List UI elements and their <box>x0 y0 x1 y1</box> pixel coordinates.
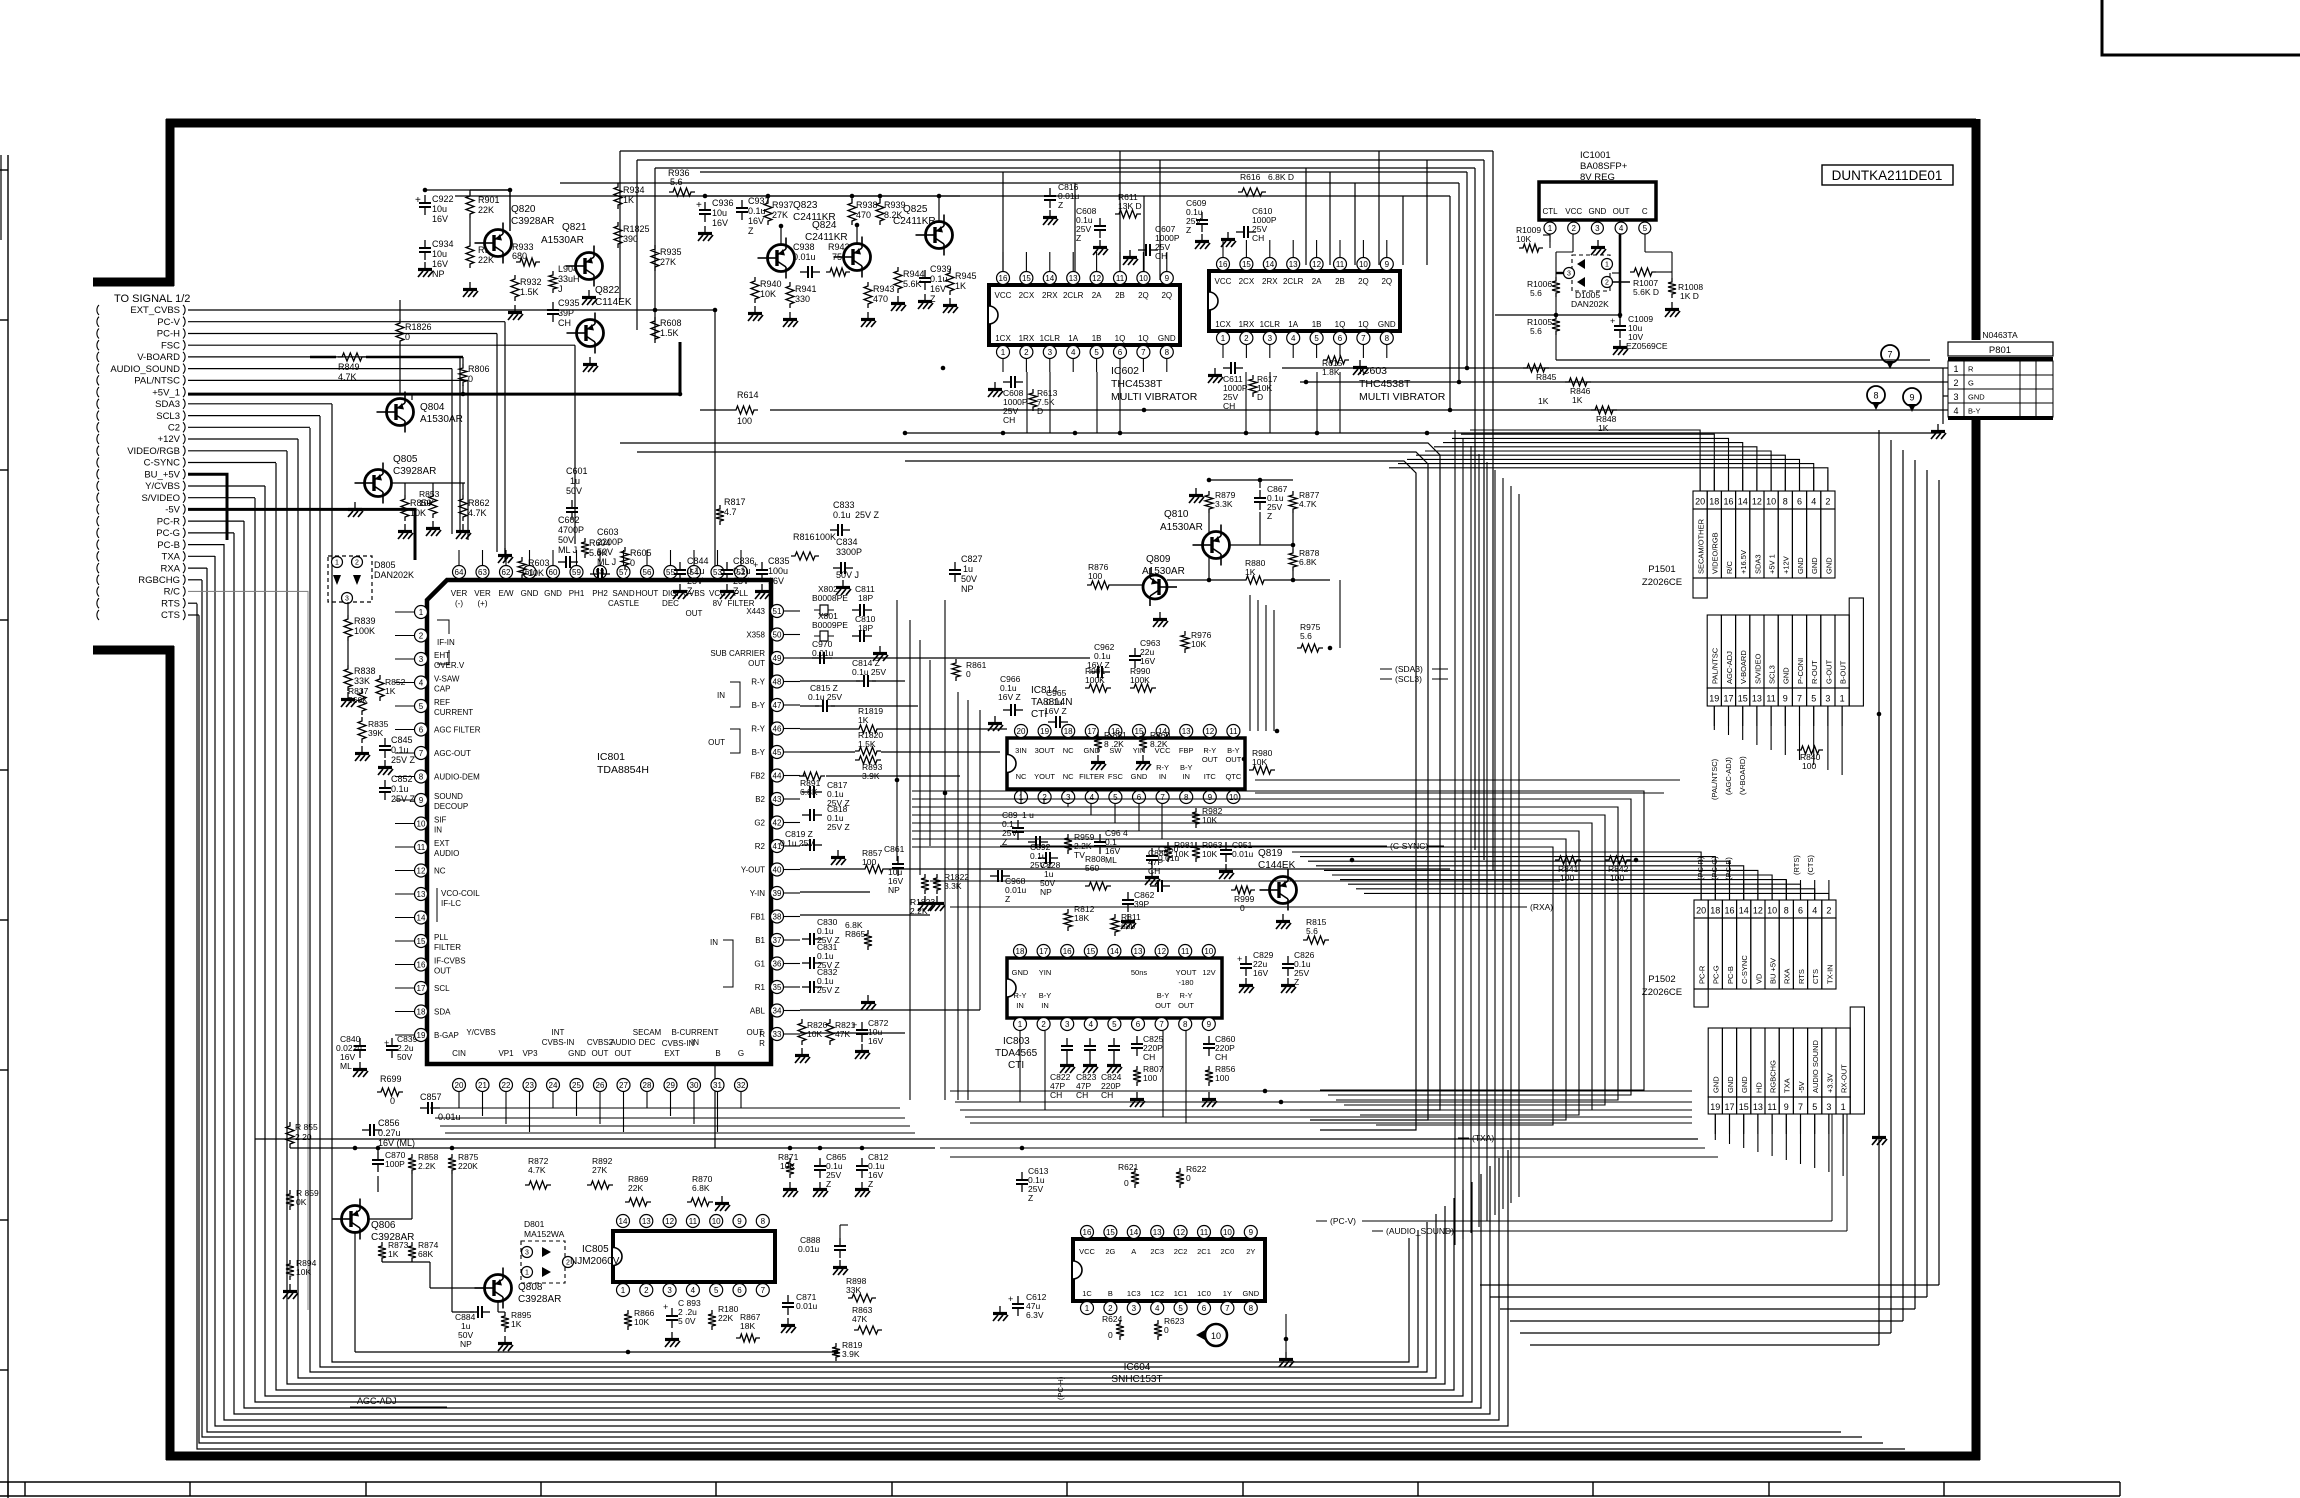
svg-text:GND: GND <box>1158 334 1176 343</box>
transistor Q825 <box>926 222 953 249</box>
svg-text:+12V: +12V <box>158 434 181 445</box>
resistor R938 <box>848 199 856 225</box>
svg-text:SECAM: SECAM <box>633 1028 662 1037</box>
svg-text:CH: CH <box>1155 251 1167 261</box>
svg-text:0.1u 25V: 0.1u 25V <box>852 667 886 677</box>
svg-text:3: 3 <box>525 1250 529 1257</box>
svg-text:19: 19 <box>1710 1102 1720 1112</box>
svg-text:CAP: CAP <box>434 685 450 694</box>
svg-text:GND: GND <box>544 589 562 598</box>
svg-text:2: 2 <box>1244 334 1249 343</box>
IC IC805 NJM2060V body <box>613 1231 775 1282</box>
svg-text:VD: VD <box>1754 973 1763 984</box>
capacitor C950 <box>1151 848 1153 856</box>
resistor R819 <box>832 1343 840 1361</box>
svg-text:TO SIGNAL 1/2: TO SIGNAL 1/2 <box>114 293 190 305</box>
resistor R901 <box>466 192 474 218</box>
svg-text:9: 9 <box>1783 694 1788 704</box>
svg-text:THC4538T: THC4538T <box>1111 378 1163 390</box>
svg-text:C857: C857 <box>420 1092 442 1102</box>
svg-text:(AUDIO_SOUND): (AUDIO_SOUND) <box>1386 1226 1454 1236</box>
capacitor C826 <box>1287 956 1289 964</box>
svg-text:R616: R616 <box>1240 172 1261 182</box>
nested verticals left of IC1001 <box>1450 151 1493 870</box>
resistor R870 <box>687 1198 713 1206</box>
svg-text:G-OUT: G-OUT <box>1824 659 1833 684</box>
resistor R879 <box>1205 491 1213 513</box>
svg-text:NC: NC <box>1063 772 1074 781</box>
resistor R623 <box>1154 1320 1162 1340</box>
svg-text:GND: GND <box>1012 968 1029 977</box>
ground below IC604 <box>1285 1352 1287 1358</box>
capacitor C935 <box>552 302 554 310</box>
svg-text:15: 15 <box>1242 260 1251 269</box>
svg-text:B-Y: B-Y <box>1968 407 1981 416</box>
svg-text:1C0: 1C0 <box>1197 1289 1211 1298</box>
svg-text:VCC: VCC <box>1079 1247 1095 1256</box>
resistor R811 <box>1111 914 1119 936</box>
svg-text:6.8K D: 6.8K D <box>1268 172 1294 182</box>
transistor Q820 <box>485 230 512 257</box>
svg-text:0: 0 <box>390 1096 395 1106</box>
svg-text:1: 1 <box>1605 262 1609 269</box>
svg-text:10: 10 <box>417 819 426 828</box>
svg-text:OUT: OUT <box>747 1028 764 1037</box>
svg-text:33K: 33K <box>846 1285 861 1295</box>
capacitor C611 cluster at IC603 <box>1223 367 1231 369</box>
svg-text:0.27u: 0.27u <box>378 1128 401 1138</box>
svg-text:RTS: RTS <box>161 598 180 609</box>
IC801 bottom pins <box>453 1079 748 1106</box>
svg-text:16: 16 <box>1063 947 1072 956</box>
svg-text:10K: 10K <box>1191 639 1206 649</box>
svg-text:C834: C834 <box>836 537 858 547</box>
svg-text:Z: Z <box>748 226 754 236</box>
svg-text:SECAM/OTHER: SECAM/OTHER <box>1697 518 1706 574</box>
svg-text:6: 6 <box>1118 348 1123 357</box>
svg-text:AGC-ADJ: AGC-ADJ <box>357 1396 397 1406</box>
svg-text:3.9K: 3.9K <box>842 1349 860 1359</box>
resistor R852 <box>376 675 384 701</box>
svg-text:CTL: CTL <box>1542 207 1558 216</box>
svg-text:IN: IN <box>1182 772 1190 781</box>
horizontal mesh wires center <box>930 780 1718 1157</box>
resistor R848 <box>1591 406 1617 414</box>
svg-text:9: 9 <box>1165 274 1170 283</box>
svg-text:3IN: 3IN <box>1015 746 1027 755</box>
svg-text:Q810: Q810 <box>1164 509 1189 520</box>
resistor R898 <box>848 1294 876 1302</box>
capacitor C825 <box>1136 1036 1138 1044</box>
svg-text:Q808: Q808 <box>518 1282 543 1293</box>
svg-text:17: 17 <box>417 984 426 993</box>
svg-text:50ns: 50ns <box>1131 968 1148 977</box>
svg-text:330: 330 <box>795 294 810 304</box>
svg-text:5.6: 5.6 <box>1530 288 1542 298</box>
svg-text:36: 36 <box>773 959 782 968</box>
svg-text:2: 2 <box>1108 1304 1113 1313</box>
svg-text:NC: NC <box>1063 746 1074 755</box>
svg-text:4: 4 <box>1071 348 1076 357</box>
svg-text:16V: 16V <box>1253 968 1268 978</box>
svg-text:1: 1 <box>1953 364 1958 374</box>
svg-text:AUDIO_SOUND: AUDIO_SOUND <box>110 364 180 375</box>
svg-text:10: 10 <box>1211 1331 1221 1341</box>
resistor R877 <box>1289 491 1297 513</box>
svg-text:4: 4 <box>1090 793 1095 802</box>
svg-text:6: 6 <box>1798 906 1803 916</box>
resistor R944 <box>894 267 902 293</box>
svg-text:S/VIDEO: S/VIDEO <box>141 493 180 504</box>
svg-text:12: 12 <box>1752 497 1762 507</box>
svg-text:GND: GND <box>521 589 539 598</box>
resistor R991 <box>1085 684 1111 692</box>
svg-text:V-BOARD: V-BOARD <box>1739 650 1748 684</box>
wire junction dots <box>353 188 1882 1355</box>
svg-text:5.6: 5.6 <box>670 177 683 187</box>
svg-text:C836: C836 <box>733 556 755 566</box>
svg-text:0.1u: 0.1u <box>748 206 766 216</box>
svg-text:16V Z: 16V Z <box>1044 706 1067 716</box>
svg-text:4700P: 4700P <box>558 525 584 535</box>
svg-text:1Q: 1Q <box>1115 334 1126 343</box>
svg-text:11: 11 <box>1229 727 1238 736</box>
svg-text:5.6: 5.6 <box>1530 326 1542 336</box>
svg-text:Q805: Q805 <box>393 454 418 465</box>
svg-text:BU_+5V: BU_+5V <box>144 469 180 480</box>
IC814 pins <box>1015 725 1242 804</box>
svg-text:NP: NP <box>961 584 974 594</box>
svg-text:1: 1 <box>1840 694 1845 704</box>
svg-text:R1825: R1825 <box>623 224 650 234</box>
capacitor C823 <box>1089 1038 1091 1046</box>
svg-text:100u: 100u <box>768 566 788 576</box>
svg-text:VP1: VP1 <box>498 1049 514 1058</box>
svg-text:Z: Z <box>1058 200 1063 210</box>
svg-text:B0008PE: B0008PE <box>812 593 848 603</box>
left margin ticks <box>0 170 8 1370</box>
svg-text:14: 14 <box>417 913 426 922</box>
svg-text:A1530AR: A1530AR <box>420 414 463 425</box>
resistor R849 with thick wire <box>310 356 336 359</box>
svg-text:39: 39 <box>773 889 782 898</box>
svg-text:10: 10 <box>712 1217 721 1226</box>
resistor R850 <box>401 495 409 521</box>
svg-text:10u: 10u <box>712 208 727 218</box>
svg-text:13: 13 <box>1753 1102 1763 1112</box>
capacitor C811 <box>852 609 860 611</box>
svg-text:18: 18 <box>1064 727 1073 736</box>
svg-text:12V: 12V <box>1202 968 1215 977</box>
svg-text:7: 7 <box>1160 793 1165 802</box>
resistor R871 <box>786 1158 794 1178</box>
svg-text:8 .2K: 8 .2K <box>1104 739 1124 749</box>
capacitor C852 <box>384 780 386 788</box>
capacitor C816 <box>1049 188 1051 196</box>
resistor R838 <box>344 665 352 691</box>
IC IC603 THC4538T <box>1209 271 1400 331</box>
svg-text:IF-IN: IF-IN <box>437 638 455 647</box>
svg-text:6: 6 <box>1797 497 1802 507</box>
wires IC801 right pins to CTI stages <box>800 658 1450 1033</box>
IC805 cluster wires <box>377 1148 379 1152</box>
svg-text:4.7: 4.7 <box>724 507 737 517</box>
svg-text:1: 1 <box>419 608 424 617</box>
svg-text:20: 20 <box>1017 727 1026 736</box>
resistor R876 <box>1087 581 1113 589</box>
svg-text:56: 56 <box>643 568 652 577</box>
svg-text:14: 14 <box>1265 260 1274 269</box>
svg-text:(AGC-ADJ): (AGC-ADJ) <box>1724 757 1733 795</box>
svg-text:C2411KR: C2411KR <box>805 232 848 243</box>
svg-text:R862: R862 <box>468 498 490 508</box>
svg-text:4: 4 <box>691 1286 696 1295</box>
svg-text:DEC: DEC <box>639 1038 656 1047</box>
svg-text:PC-R: PC-R <box>157 516 180 527</box>
svg-text:26: 26 <box>596 1081 605 1090</box>
wires from P1501 top going up <box>1389 430 1828 491</box>
reference bubble 9 <box>1903 388 1921 406</box>
svg-text:13: 13 <box>642 1217 651 1226</box>
svg-text:16V: 16V <box>1140 656 1155 666</box>
svg-text:GND: GND <box>1589 207 1607 216</box>
svg-text:7: 7 <box>1798 1102 1803 1112</box>
svg-text:18P: 18P <box>858 593 873 603</box>
svg-text:1K: 1K <box>511 1319 522 1329</box>
svg-text:VP3: VP3 <box>522 1049 538 1058</box>
svg-text:B-OUT: B-OUT <box>1839 660 1848 684</box>
svg-text:50V: 50V <box>397 1052 412 1062</box>
svg-text:+: + <box>384 1038 389 1048</box>
svg-text:42: 42 <box>773 818 782 827</box>
svg-text:5.6K D: 5.6K D <box>1633 287 1659 297</box>
wires from upper connector rows descending <box>452 310 715 1148</box>
svg-text:2: 2 <box>1042 793 1047 802</box>
resistor R1826 <box>396 319 404 345</box>
svg-text:BU +5V: BU +5V <box>1769 958 1778 984</box>
svg-text:4: 4 <box>419 678 424 687</box>
connector P1501 upper row <box>1693 470 1835 598</box>
capacitor C1009 <box>1619 318 1621 326</box>
svg-text:50V: 50V <box>961 574 977 584</box>
svg-text:5.6: 5.6 <box>1306 926 1318 936</box>
svg-text:Z2026CE: Z2026CE <box>1642 577 1682 588</box>
capacitor C608b <box>1099 218 1101 226</box>
svg-text:5.6: 5.6 <box>1300 631 1312 641</box>
svg-text:100: 100 <box>1802 761 1816 771</box>
svg-text:1C: 1C <box>1082 1289 1092 1298</box>
svg-text:5: 5 <box>1178 1304 1183 1313</box>
svg-text:2: 2 <box>419 631 424 640</box>
svg-text:33K: 33K <box>354 676 370 686</box>
svg-text:Q824: Q824 <box>812 220 837 231</box>
svg-text:EXT_CVBS: EXT_CVBS <box>130 305 180 316</box>
svg-text:R943: R943 <box>873 284 895 294</box>
svg-text:G2: G2 <box>754 819 765 828</box>
capacitor C862 <box>1127 892 1129 900</box>
svg-text:6: 6 <box>1137 793 1142 802</box>
svg-text:B-GAP: B-GAP <box>434 1031 459 1040</box>
svg-text:GND: GND <box>568 1049 586 1058</box>
IC IC602 THC4538T <box>989 285 1180 345</box>
svg-text:EZ0569CE: EZ0569CE <box>1626 341 1668 351</box>
svg-text:NJM2060V: NJM2060V <box>570 1256 620 1267</box>
svg-text:6: 6 <box>1338 334 1343 343</box>
svg-text:3: 3 <box>667 1286 672 1295</box>
svg-text:C935: C935 <box>558 298 580 308</box>
svg-text:R901: R901 <box>478 195 500 205</box>
svg-text:8: 8 <box>419 772 424 781</box>
svg-text:1K: 1K <box>1572 395 1583 405</box>
resistor R932 <box>511 275 519 301</box>
wires below P1502 <box>1715 1114 1843 1176</box>
signal wires from connector turning down into left bus <box>188 310 715 615</box>
svg-text:B-Y: B-Y <box>1180 763 1193 772</box>
svg-text:R: R <box>1968 365 1974 374</box>
IC801 bottom pin drops <box>459 1105 741 1132</box>
resistor R621 <box>1131 1168 1139 1188</box>
svg-text:2CLR: 2CLR <box>1063 291 1084 300</box>
resistor R895 <box>501 1312 509 1332</box>
resistor R1007 <box>1630 268 1656 276</box>
svg-text:100: 100 <box>737 416 752 426</box>
svg-text:2A: 2A <box>1092 291 1102 300</box>
svg-text:+16.5V: +16.5V <box>1739 550 1748 574</box>
svg-text:16: 16 <box>1724 906 1734 916</box>
svg-text:PH1: PH1 <box>569 589 585 598</box>
svg-text:2C1: 2C1 <box>1197 1247 1211 1256</box>
svg-text:58: 58 <box>596 568 605 577</box>
svg-text:CURRENT: CURRENT <box>434 708 473 717</box>
svg-text:R845: R845 <box>1536 372 1557 382</box>
svg-text:25V: 25V <box>687 576 703 586</box>
svg-text:2C0: 2C0 <box>1221 1247 1235 1256</box>
svg-text:18: 18 <box>1709 497 1719 507</box>
svg-text:0: 0 <box>1108 1330 1113 1340</box>
svg-text:29: 29 <box>666 1081 675 1090</box>
diode pack D801 <box>521 1241 565 1283</box>
svg-text:13: 13 <box>1153 1228 1162 1237</box>
IC814 bottom pin drops <box>1021 791 1162 839</box>
resistor R891 <box>799 772 825 780</box>
svg-text:C861: C861 <box>884 844 905 854</box>
capacitor C938 <box>800 271 808 273</box>
capacitor C812 <box>861 1158 863 1166</box>
svg-text:PC-R: PC-R <box>1698 965 1707 984</box>
svg-text:13K D: 13K D <box>1118 201 1142 211</box>
svg-text:PAL/NTSC: PAL/NTSC <box>134 376 180 387</box>
svg-text:A1530AR: A1530AR <box>1142 566 1185 577</box>
resistor R873 <box>378 1242 386 1262</box>
svg-text:TXA: TXA <box>162 552 181 563</box>
vertical wires right of IC801 <box>897 600 980 1100</box>
svg-text:6.8K: 6.8K <box>1299 557 1317 567</box>
svg-text:2RX: 2RX <box>1042 291 1058 300</box>
svg-text:27: 27 <box>619 1081 628 1090</box>
svg-text:8V: 8V <box>713 599 723 608</box>
svg-text:1B: 1B <box>1092 334 1102 343</box>
svg-text:0.01u: 0.01u <box>438 1112 461 1122</box>
page corner box top-right <box>2102 0 2300 55</box>
svg-text:11: 11 <box>417 843 426 852</box>
svg-text:2CLR: 2CLR <box>1283 277 1304 286</box>
svg-text:FILTER: FILTER <box>434 943 461 952</box>
svg-text:17: 17 <box>1723 694 1733 704</box>
svg-text:2Q: 2Q <box>1161 291 1172 300</box>
transistor Q819 <box>1270 877 1297 904</box>
svg-text:BA08SFP+: BA08SFP+ <box>1580 161 1628 172</box>
svg-text:CIN: CIN <box>452 1049 466 1058</box>
board name DUNTKA211DE01 <box>1822 165 1953 185</box>
capacitor C839 <box>391 1038 393 1046</box>
resistor R936 <box>669 188 695 196</box>
capacitor C870 <box>377 1152 379 1160</box>
svg-text:FSC: FSC <box>1108 772 1124 781</box>
IC602 top pin risers <box>1003 240 1387 271</box>
svg-text:63: 63 <box>478 568 487 577</box>
resistor R845 <box>1523 364 1549 372</box>
svg-text:R945: R945 <box>955 271 977 281</box>
capacitor C922 <box>424 195 426 203</box>
svg-text:8: 8 <box>1873 391 1878 401</box>
svg-text:1: 1 <box>1841 1102 1846 1112</box>
resistor R945 <box>946 269 954 295</box>
svg-text:10K: 10K <box>780 1161 795 1171</box>
svg-text:100K: 100K <box>354 626 375 636</box>
IC602 pins <box>995 272 1176 373</box>
resistor R1005 <box>1552 315 1560 335</box>
resistor R817 <box>716 505 724 525</box>
svg-text:OUT: OUT <box>592 1049 609 1058</box>
IC803 pins <box>1014 945 1216 1031</box>
svg-text:1C1: 1C1 <box>1174 1289 1188 1298</box>
resistor R614 <box>732 406 758 414</box>
svg-text:IC805: IC805 <box>582 1244 609 1255</box>
svg-text:REF: REF <box>434 698 450 707</box>
svg-text:470: 470 <box>873 294 888 304</box>
svg-text:18: 18 <box>1710 906 1720 916</box>
svg-text:R2: R2 <box>755 842 766 851</box>
svg-text:9: 9 <box>1385 260 1390 269</box>
svg-text:C2: C2 <box>168 423 180 434</box>
svg-text:CH: CH <box>1003 415 1015 425</box>
svg-text:4: 4 <box>1089 1020 1094 1029</box>
svg-text:60: 60 <box>549 568 558 577</box>
resistor R808 <box>1085 882 1111 890</box>
resistor R617 <box>1249 375 1257 397</box>
svg-text:B-Y: B-Y <box>1227 746 1240 755</box>
resistor R604 <box>581 538 589 558</box>
svg-text:1K: 1K <box>1245 567 1256 577</box>
svg-text:CTS: CTS <box>1811 969 1820 984</box>
svg-text:(RXA): (RXA) <box>1530 902 1553 912</box>
resistor R857 <box>861 865 887 873</box>
svg-text:D801: D801 <box>524 1219 545 1229</box>
capacitor C609 <box>1201 212 1203 220</box>
svg-text:12: 12 <box>1753 906 1763 916</box>
svg-text:B2: B2 <box>755 795 765 804</box>
svg-text:Q804: Q804 <box>420 402 445 413</box>
svg-text:10K: 10K <box>296 1267 311 1277</box>
svg-text:10K: 10K <box>1174 849 1189 859</box>
svg-text:1: 1 <box>335 560 339 567</box>
svg-text:CH: CH <box>1148 866 1160 876</box>
svg-text:CH: CH <box>1252 233 1264 243</box>
svg-text:0.01u: 0.01u <box>798 1244 820 1254</box>
IC801 top pins <box>451 550 755 618</box>
inductor L904 <box>549 271 557 293</box>
IC801 right pins <box>710 605 800 1041</box>
